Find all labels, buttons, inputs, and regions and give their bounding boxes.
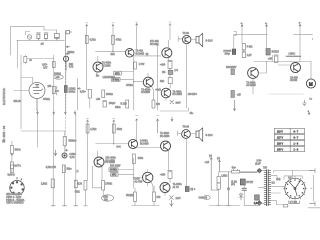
svg-text:100kΩ: 100kΩ (69, 92, 76, 94)
capacitor C12 1000uF (254, 195, 259, 205)
svg-text:A9: A9 (204, 197, 208, 200)
svg-text:B-50Ω: B-50Ω (110, 170, 117, 172)
resistor R12 (152, 100, 155, 108)
svg-text:47kΩ: 47kΩ (117, 129, 123, 131)
wire a7 elbow (211, 189, 218, 191)
wire speaker2 return (185, 139, 187, 165)
fuse F2 (232, 169, 240, 173)
svg-text:BC158B: BC158B (102, 65, 111, 67)
resistor R7b (52, 62, 55, 68)
svg-text:(10): (10) (276, 179, 280, 181)
svg-text:3 W•: 3 W• (257, 161, 262, 163)
wire speaker2 feed (190, 133, 196, 135)
transformer TR1 primary teeth (264, 171, 267, 205)
svg-text:NTC: NTC (115, 73, 120, 75)
node junction dot ch2 (113, 143, 114, 144)
wire tube anode (21, 78, 33, 84)
resistor R21 (84, 181, 87, 191)
node supply tick A (86, 24, 88, 26)
svg-text:B 50Ω: B 50Ω (113, 80, 120, 82)
resistor R2 47k (112, 35, 115, 44)
svg-text:(+): (+) (217, 158, 220, 160)
resistor R8 (64, 86, 67, 93)
node supply tick I (136, 119, 138, 121)
inductor L2 cross (170, 196, 174, 200)
capacitor C5 (55, 86, 58, 95)
resistor R5 5MA (242, 44, 245, 50)
wire xfmr top lead (240, 171, 264, 204)
svg-text:T1-40SA: T1-40SA (246, 81, 256, 84)
terminal box psu (240, 179, 245, 185)
transistor T2 driver (162, 48, 172, 58)
box NTC lower (111, 173, 119, 177)
wire ch2 bus (21, 131, 65, 137)
svg-text:BC148B: BC148B (136, 54, 145, 56)
wire top power bus left (234, 34, 268, 49)
wire lower link bus (160, 108, 188, 111)
ground b2 (63, 205, 67, 207)
svg-text:4,7kΩ: 4,7kΩ (90, 129, 96, 131)
svg-text:BC-158B: BC-158B (160, 136, 170, 138)
wire dark bar (286, 55, 301, 57)
svg-text:μF): μF) (231, 184, 235, 186)
inductor L1 cross (170, 100, 174, 104)
speaker SP1 (196, 33, 203, 47)
svg-text:BC148B: BC148B (140, 144, 149, 146)
wire bottom bus mid (132, 186, 160, 206)
svg-text:~: ~ (311, 188, 313, 190)
svg-text:2T1-40A: 2T1-40A (150, 40, 159, 43)
wire top loop input (11, 27, 57, 55)
svg-text:MΩ1: MΩ1 (75, 191, 81, 193)
svg-text:470Ω: 470Ω (138, 158, 144, 160)
wire motor cross bus (294, 34, 313, 39)
svg-text:NTC: NTC (112, 175, 117, 177)
svg-text:5A×: 5A× (232, 166, 237, 169)
svg-text:10kΩ: 10kΩ (115, 107, 121, 109)
wire rail mid1 (53, 55, 55, 110)
node junction T4 (133, 81, 134, 82)
svg-text:47kΩ: 47kΩ (116, 39, 122, 41)
resistor R7 (52, 86, 55, 93)
wire B50 to rail (120, 78, 134, 80)
wire T8 T11 link (137, 147, 160, 149)
svg-text:TR-09: TR-09 (183, 126, 190, 128)
wire rail R1 (86, 24, 88, 89)
wire T9 emitter branch (93, 166, 102, 188)
svg-text:VT 281: VT 281 (290, 202, 298, 204)
transformer TR1 core (267, 170, 269, 206)
svg-text:1,5kΩ: 1,5kΩ (221, 175, 227, 177)
node supply tick C (136, 24, 138, 26)
svg-text:1N•: 1N• (162, 72, 166, 74)
svg-text:1kΩ: 1kΩ (160, 81, 164, 83)
wire TR09 emitter down (185, 44, 187, 58)
transistor T12 (160, 183, 170, 193)
ground arrow ch2 (54, 150, 57, 156)
wire T9 stem (98, 151, 103, 181)
svg-text:Ω=1: Ω=1 (117, 146, 122, 148)
resistor R9 39ohm (133, 62, 136, 69)
wire T2 emitter down (167, 58, 169, 61)
wire T3 stem (97, 56, 98, 75)
wire rail b2 (64, 165, 66, 206)
rotary switch S1 (283, 177, 306, 201)
svg-text:4,7kΩ: 4,7kΩ (90, 39, 96, 41)
node supply plus D (241, 23, 243, 27)
svg-text:500kΩ+: 500kΩ+ (69, 141, 78, 143)
svg-text:Tri0: Tri0 (263, 167, 268, 170)
svg-text:P MA: P MA (247, 46, 253, 49)
wire boxes to rail lower (118, 158, 134, 188)
wire pot gang dashed lower (64, 114, 66, 148)
svg-text:M: M (309, 82, 313, 87)
svg-text:μ2: μ2 (41, 42, 44, 46)
wire rail G (87, 120, 89, 144)
wire rail mid3 (77, 79, 79, 110)
table voltage selector (274, 128, 304, 151)
wire R16 to J2 (64, 146, 66, 154)
svg-text:(=2: (=2 (175, 70, 179, 72)
transistor T6 (248, 68, 259, 79)
svg-text:0,05 M: 0,05 M (8, 175, 15, 177)
wire rail G ext (87, 144, 89, 181)
box B50 lower (109, 168, 118, 172)
wire input bus (17, 40, 65, 68)
triode V1 6BL8 (29, 83, 45, 111)
svg-text:( 180 ): ( 180 ) (289, 54, 296, 56)
node supply tick H (113, 120, 115, 122)
svg-text:TR 09: TR 09 (183, 33, 190, 35)
svg-text:VISTO P/BAIXO: VISTO P/BAIXO (6, 202, 24, 205)
resistor R22 (102, 181, 105, 191)
fuse F2 bottom (283, 204, 288, 207)
wire R17 tail (11, 169, 13, 173)
wire T4 stems (148, 73, 154, 100)
wire T6 T7 link (258, 61, 290, 73)
node arrow a1 (37, 111, 39, 115)
svg-text:1MΩ: 1MΩ (103, 196, 108, 198)
svg-text:BYX10: BYX10 (272, 52, 280, 54)
wire motor top bus (253, 55, 311, 94)
svg-text:4,7k: 4,7k (69, 67, 74, 69)
diode D5 (239, 193, 243, 200)
svg-text:(8,3F: (8,3F (255, 164, 261, 166)
svg-text:=1kΩ: =1kΩ (155, 89, 161, 91)
speaker SP2 (196, 128, 203, 142)
wire rail a4 down (75, 114, 77, 165)
node supply tick B (112, 24, 114, 26)
svg-text:+50: +50 (96, 99, 101, 101)
battery B1 (242, 51, 246, 58)
svg-text:270: 270 (157, 197, 162, 199)
svg-text:AC-158B: AC-158B (246, 84, 256, 87)
resistor R17 left edge (10, 162, 13, 169)
wire crease line (269, 93, 304, 95)
wire mains vertical (313, 175, 315, 201)
svg-text:S 4Ω 3: S 4Ω 3 (206, 41, 214, 43)
wire collector T8 (136, 119, 138, 141)
svg-text:2700Ω: 2700Ω (105, 184, 112, 186)
svg-text:6BLU8: 6BLU8 (14, 101, 22, 103)
node arrow up a7 (210, 158, 212, 191)
svg-text:C450•: C450• (70, 154, 76, 156)
wire left rail tube (20, 55, 22, 129)
wire rail a2 down (52, 114, 54, 165)
resistor R16 ch2 (63, 137, 66, 146)
svg-text:+25: +25 (268, 59, 273, 61)
ground arrow L2 (170, 200, 173, 206)
node arrow a3 (64, 111, 66, 115)
svg-text:1 - 8: 1 - 8 (294, 144, 299, 146)
capacitor C10 100uF (168, 171, 173, 179)
svg-text:CA7: CA7 (43, 66, 48, 69)
svg-text:=100: =100 (160, 175, 166, 177)
diode D3 (257, 168, 262, 173)
label 100k oval (54, 75, 64, 79)
wire R15 stem (11, 141, 13, 162)
label oval 1M (102, 195, 114, 201)
svg-text:100μF: 100μF (109, 103, 116, 105)
fuse F1 (185, 187, 189, 192)
label tube pins (6, 193, 24, 204)
wire rail x134 (133, 55, 135, 110)
svg-text:GJ 4590 - 96: GJ 4590 - 96 (3, 125, 6, 142)
wire T1 T2 link (134, 55, 161, 57)
label S1 (289, 201, 300, 204)
svg-text:S 4Ω 3: S 4Ω 3 (206, 135, 214, 137)
wire rail E down (266, 27, 268, 48)
diode D2 (168, 69, 173, 75)
svg-text:AL T8: AL T8 (173, 186, 180, 189)
potentiometer ch2 wiper (65, 149, 68, 151)
svg-text:(+): (+) (209, 156, 212, 158)
wire R21 down (84, 190, 88, 206)
resistor R20 (132, 154, 135, 164)
wire bottom bus (209, 205, 240, 207)
svg-text:1kΩ: 1kΩ (111, 54, 115, 56)
capacitor C1 (37, 33, 41, 40)
transistor T10 (143, 172, 153, 182)
ground a9 (227, 205, 231, 207)
transistor Q heater reg (63, 56, 68, 70)
wire psu verticals (244, 168, 259, 205)
transformer TR1 secondary teeth (268, 171, 271, 205)
capacitor C2 (44, 33, 48, 40)
wire R22 down (102, 190, 104, 195)
svg-text:6 - 7: 6 - 7 (294, 132, 299, 134)
svg-text:100 MF×: 100 MF× (188, 93, 198, 96)
wire ch2 base bus (96, 133, 129, 144)
node arrow a6 (233, 100, 235, 111)
svg-text:1kΩ(M): 1kΩ(M) (126, 195, 134, 197)
svg-text:BC-158B: BC-158B (173, 94, 183, 96)
label A9 circled (203, 195, 210, 199)
svg-text:AL-T8B: AL-T8B (135, 181, 143, 184)
svg-text:percent: percent (224, 50, 232, 53)
transistor TR09 output upper (183, 35, 191, 43)
svg-text:+25: +25 (237, 94, 242, 96)
wire pot gang dashed (64, 62, 66, 110)
svg-text:2-40SA: 2-40SA (140, 140, 148, 143)
node arrow a5 (171, 117, 173, 121)
resistor R6 top left (24, 57, 27, 63)
wire T4 base (134, 81, 144, 83)
svg-text:+25: +25 (56, 77, 61, 79)
tube socket V1 base (10, 178, 24, 195)
resistor R11 (126, 100, 129, 108)
svg-text:500 k: 500 k (15, 150, 21, 152)
diode D1 BYX10 (266, 49, 270, 56)
svg-text:+: + (308, 111, 310, 113)
svg-text:0,7k=: 0,7k= (80, 91, 86, 93)
svg-text:127 V: 127 V (277, 138, 283, 140)
wire rail a1 down (37, 114, 39, 147)
svg-text:100μ: 100μ (225, 53, 231, 55)
svg-text:BC158B: BC158B (141, 92, 150, 94)
wire psu left (240, 171, 257, 173)
node supply tick G (87, 120, 89, 122)
svg-text:T1-40A: T1-40A (136, 50, 144, 53)
diode D4 (257, 201, 262, 206)
svg-text:L+: L+ (310, 99, 313, 101)
transistor T5 (161, 88, 171, 98)
terminal strip upper (232, 49, 235, 55)
wire mid rail (186, 165, 188, 189)
svg-text:100kΩ: 100kΩ (106, 94, 113, 96)
svg-text:4,7k: 4,7k (78, 184, 83, 186)
node arrow a2 (53, 111, 55, 115)
ground b1 (51, 205, 55, 207)
capacitor C4 coupler (66, 30, 72, 34)
capacitor C6 electrolytic (103, 101, 107, 108)
resistor R19 (112, 124, 115, 133)
svg-text:BY127: BY127 (246, 182, 254, 184)
svg-text:C=1 1/2dB: C=1 1/2dB (104, 162, 115, 164)
svg-text:1,5MΩ: 1,5MΩ (69, 88, 76, 90)
svg-text:1mH: 1mH (176, 198, 181, 200)
wire T10 stems (148, 170, 153, 193)
wire R1b link (87, 90, 90, 109)
wire rail D down (242, 27, 244, 52)
wire lower psu feed (219, 171, 257, 173)
svg-text:4,7Ω: 4,7Ω (70, 157, 75, 159)
wire T10 base (134, 177, 143, 179)
wire rail R2 (112, 24, 114, 51)
svg-text:110 V: 110 V (277, 132, 283, 134)
wire grid in (14, 90, 29, 92)
node junction dot (112, 51, 113, 52)
box B50 (111, 78, 120, 82)
svg-text:470kΩ: 470kΩ (126, 85, 133, 87)
svg-text:1 - 8: 1 - 8 (294, 150, 299, 152)
ground motor (302, 100, 306, 105)
capacitor C9 25uF (274, 55, 278, 63)
resistor R27 (62, 165, 65, 173)
svg-text:ELETROVOZ•: ELETROVOZ• (3, 88, 6, 105)
svg-text:T1-40SA: T1-40SA (173, 90, 183, 93)
svg-text:470kΩ: 470kΩ (43, 99, 50, 101)
svg-text:1,5kΩ/100Ω: 1,5kΩ/100Ω (103, 77, 116, 79)
svg-text:160: 160 (48, 86, 53, 88)
svg-text:CA7•: CA7• (42, 64, 47, 67)
wire speaker return rail (185, 58, 187, 108)
wire base TR09 lower (178, 131, 182, 136)
resistor R18 (86, 124, 89, 133)
wire C7 D2 link (166, 75, 170, 101)
svg-text:100kΩ: 100kΩ (54, 74, 61, 76)
capacitor C13 bars (242, 188, 247, 190)
svg-text:T1+39: T1+39 (133, 179, 140, 181)
wire base TR09 (178, 37, 182, 42)
svg-text:=100: =100 (160, 65, 166, 67)
wire T11 to C10 (165, 151, 170, 196)
wire heater line (25, 55, 54, 64)
svg-text:1,5kΩ: 1,5kΩ (41, 183, 47, 185)
svg-text:4,7kΩ 1W: 4,7kΩ 1W (46, 167, 57, 169)
svg-text:( 1: ( 1 (76, 171, 79, 173)
resistor R23 (134, 192, 137, 202)
svg-text:T1-40SA: T1-40SA (160, 132, 170, 135)
wire speaker feed (191, 39, 196, 41)
svg-text:T1-40SA: T1-40SA (102, 62, 112, 65)
svg-text:R 128: R 128 (121, 104, 128, 106)
resistor R14 right (231, 69, 234, 75)
svg-text:5k•: 5k• (96, 76, 99, 78)
node plus J (308, 111, 310, 115)
wire switch feed mid (284, 171, 302, 180)
resistor R28 (74, 180, 77, 188)
potentiometer P1 500k (65, 31, 67, 62)
svg-text:10Ω 1/2W: 10Ω 1/2W (110, 165, 121, 167)
svg-text:4×: 4× (29, 59, 32, 62)
svg-text:(1 kΩ: (1 kΩ (231, 181, 237, 183)
wire base bus (96, 44, 126, 51)
wire collector T2 (168, 24, 171, 49)
svg-text:0,47 k: 0,47 k (14, 165, 21, 167)
resistor R1 4.7k (85, 35, 88, 43)
node supply tick J2r (157, 119, 159, 133)
wire bottom right bus (308, 207, 320, 209)
wire rail b3 (75, 165, 77, 206)
svg-text:240 V: 240 V (277, 150, 283, 152)
resistor R10 (102, 90, 105, 98)
bracket right upper (234, 32, 236, 36)
wire rail mid2 (65, 56, 67, 111)
svg-text:1kΩ: 1kΩ (69, 64, 73, 66)
resistor R24 (153, 192, 156, 202)
svg-text:220 V: 220 V (277, 144, 283, 146)
svg-text:C2-40B: C2-40B (290, 77, 298, 79)
node supply plus F (299, 23, 301, 27)
ground b3 (74, 205, 78, 207)
resistor R25 bottom left (10, 165, 13, 173)
resistor R30 (217, 183, 220, 189)
transistor T1 BC148B (125, 49, 134, 58)
wire rail H (113, 120, 115, 144)
svg-text:AC188: AC188 (290, 79, 298, 82)
svg-text:1,5V: 1,5V (247, 55, 252, 57)
transistor T4 (143, 77, 153, 87)
plug prong top (309, 169, 315, 173)
resistor R1b (88, 90, 91, 99)
transistor T9 (94, 157, 104, 167)
transistor TR09 lower (182, 130, 191, 139)
transistor T8 (128, 139, 137, 148)
jack J1 (27, 35, 31, 39)
motor M1 (306, 79, 315, 88)
capacitor C3 u2 (54, 33, 59, 40)
